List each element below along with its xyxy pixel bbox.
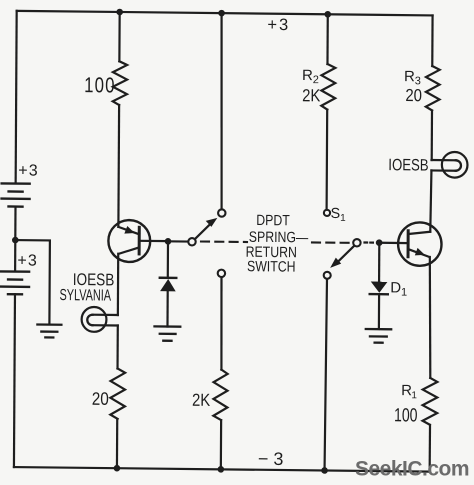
diode D1 triangle <box>371 281 388 292</box>
svg-text:100: 100 <box>84 74 116 98</box>
node junction dot top rail at R2 branch <box>324 11 331 18</box>
lamp L1 top lead <box>93 314 118 316</box>
node junction dot Q2 base / diode D1 <box>376 239 383 246</box>
wire dashed stub right of pole B <box>365 241 377 243</box>
wire lower-right contact to bottom rail <box>325 280 327 471</box>
wire R3 to lamp L2 <box>431 111 433 160</box>
node junction dot bottom rail at switch branch <box>321 467 328 474</box>
transistor Q2 NPN <box>398 222 442 266</box>
wire left diode to ground G2 <box>166 291 168 326</box>
switch S pole B arm <box>338 246 354 262</box>
svg-text:SWITCH: SWITCH <box>247 258 296 275</box>
transistor Q1 body circle <box>108 220 150 262</box>
transistor Q2 base bar <box>407 231 410 257</box>
lamp L2 top lead <box>432 159 456 161</box>
switch S pole B arrow <box>330 258 341 269</box>
wire Q1 collector down to lamp <box>117 254 120 315</box>
transistor Q1 PNP <box>108 220 168 262</box>
ground G3 <box>366 329 391 343</box>
svg-text:2K: 2K <box>192 391 210 411</box>
node junction dot bottom rail at 2K branch <box>218 466 225 473</box>
wire top rail corner down to R3 <box>431 15 434 66</box>
transistor Q1 collector lead <box>119 247 139 254</box>
wire junction to switch pole A <box>168 240 187 242</box>
node junction dot top rail at switch branch <box>218 10 225 17</box>
svg-text:S1: S1 <box>330 206 346 224</box>
svg-text:R2: R2 <box>302 67 319 86</box>
wire top rail junction down to R2 <box>326 14 328 64</box>
wire R2 to terminal S1 <box>326 110 329 209</box>
node junction dot between batteries <box>12 237 19 244</box>
svg-text:20: 20 <box>92 389 109 410</box>
wire lower throw contact to resistor 2K <box>221 278 222 370</box>
switch S throw contact lower-left circle <box>218 270 225 277</box>
wire bottom rail -3 <box>14 467 430 472</box>
wire left rail battery B2 to bottom rail <box>14 294 15 467</box>
node junction dot bottom rail at 20-ohm branch <box>114 465 121 472</box>
lamp L2 envelope circle <box>442 152 468 178</box>
transistor Q2 emitter arrow (points out, NPN) <box>415 248 425 256</box>
wire dashed mechanical link left section <box>201 240 247 243</box>
wire upper throw contact to top rail <box>220 13 222 209</box>
ground G1 <box>37 325 61 338</box>
lamp L1 filament loop <box>87 315 92 326</box>
svg-text:SYLVANIA: SYLVANIA <box>59 286 111 304</box>
svg-text:SeekIC.com: SeekIC.com <box>355 457 469 480</box>
diode left (cathode up, unlabeled) <box>160 278 177 292</box>
resistor R1 <box>423 378 438 425</box>
ground G2 <box>154 326 180 340</box>
wire pole B to Q2 base junction <box>377 242 408 245</box>
resistor 100 (Q1 emitter) <box>113 61 127 105</box>
svg-text:DPDT: DPDT <box>256 212 290 229</box>
svg-text:+3: +3 <box>267 16 290 34</box>
diode D1 (cathode down) <box>370 281 388 294</box>
svg-text:+3: +3 <box>18 162 39 179</box>
battery B1 +3 <box>2 183 30 206</box>
switch S pole A arm <box>195 222 212 239</box>
wire lamp L2 to Q2 collector <box>430 170 431 231</box>
transistor Q2 body circle <box>398 222 442 266</box>
terminal S1 circle <box>324 210 330 216</box>
resistor 2K <box>213 370 227 421</box>
diode left triangle <box>160 279 176 291</box>
resistor R3 <box>426 66 440 111</box>
node junction dot top rail at 100-ohm branch <box>116 9 123 16</box>
svg-text:100: 100 <box>394 404 418 426</box>
lamp L1 bottom lead <box>92 324 117 326</box>
lamp L2 filament loop <box>456 160 461 170</box>
transistor Q1 base lead <box>139 240 168 243</box>
resistor 20 <box>110 368 125 419</box>
diode left cathode bar <box>160 277 177 280</box>
diode D1 cathode bar <box>370 293 388 296</box>
wire junction to chassis ground G1 <box>15 240 50 324</box>
wire resistor R1 to bottom rail <box>429 425 432 472</box>
wire resistor 2K to bottom rail <box>220 420 222 469</box>
svg-text:20: 20 <box>405 86 422 106</box>
wire junction to battery B2 <box>14 240 16 271</box>
svg-text:2K: 2K <box>302 86 320 106</box>
svg-text:IOESB: IOESB <box>388 156 428 175</box>
wire battery B1 to junction <box>14 207 16 241</box>
wire Q2 emitter to resistor R1 <box>429 257 431 378</box>
svg-text:D1: D1 <box>390 279 407 298</box>
wire lamp to resistor 20 <box>116 325 118 368</box>
resistor R2 <box>321 64 335 110</box>
battery B2 +3 <box>1 271 29 294</box>
switch S pole A circle <box>188 238 195 245</box>
wire diode D1 to ground G3 <box>378 294 380 329</box>
wire left rail down to battery B1 <box>16 11 17 183</box>
transistor Q1 emitter lead <box>118 227 139 234</box>
transistor Q2 collector lead <box>408 231 430 234</box>
svg-text:−3: −3 <box>258 449 289 469</box>
wire junction down to left diode <box>167 241 169 276</box>
lamp L2 IOESB <box>431 152 467 178</box>
wire junction down to diode D1 <box>378 243 380 282</box>
switch S pole B circle <box>353 239 360 246</box>
wire top rail to resistor 100 <box>118 12 120 61</box>
svg-text:+3: +3 <box>17 252 38 269</box>
wire resistor 100 to Q1 emitter <box>117 105 120 227</box>
lamp IOESB SYLVANIA <box>82 307 118 332</box>
wire top rail +3 <box>17 11 433 16</box>
transistor Q1 base bar <box>138 227 141 254</box>
switch S pole A arrow <box>206 218 218 227</box>
lamp L2 bottom lead <box>431 169 455 171</box>
transistor Q2 emitter lead <box>408 249 429 257</box>
svg-text:R3: R3 <box>404 68 421 87</box>
switch S throw contact lower-right circle <box>324 272 331 279</box>
switch S throw contact upper-left circle <box>218 209 225 216</box>
lamp L1 envelope circle <box>82 307 107 332</box>
transistor Q1 emitter arrow (points into base, PNP) <box>124 226 134 234</box>
wire dashed mechanical link right section <box>312 241 352 244</box>
node junction dot Q1 base / diode / switch pole <box>165 238 172 245</box>
svg-text:R1: R1 <box>401 382 417 401</box>
wire resistor 20 to bottom rail <box>116 419 118 468</box>
